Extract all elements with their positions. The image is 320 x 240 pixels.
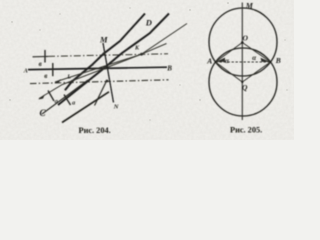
svg-text:M: M [99, 34, 108, 44]
svg-text:Рис. 205.: Рис. 205. [230, 126, 262, 135]
wire: thick slanted line S2 (through P crossing) [58, 14, 169, 106]
wire: vertical tick T2 crossing H2 [52, 63, 54, 76]
wire: horizontal dash-dot line H3 (bottom) [30, 80, 169, 84]
svg-text:A: A [206, 56, 212, 65]
wire: line M-N (near vertical) [103, 43, 114, 103]
svg-text:N: N [113, 104, 119, 111]
node A dot [215, 61, 217, 63]
wire: segment A-O [216, 43, 243, 63]
svg-text:C: C [40, 108, 47, 118]
svg-text:α: α [252, 54, 256, 62]
svg-text:B: B [275, 56, 281, 65]
node H1-MN-S1 crossing dot [103, 52, 106, 55]
node S1-H2 crossing dot [91, 64, 93, 66]
wire: hatch tick h2 [64, 95, 71, 106]
wire: segment A-Q [216, 62, 243, 82]
wire: dashed diagonal A-B [216, 61, 271, 63]
svg-text:Q: Q [242, 83, 248, 92]
wire: segment O-B [242, 43, 270, 63]
circle top (center O) [209, 8, 277, 76]
arrowhead at left end of S4 [55, 79, 62, 83]
svg-text:B: B [166, 65, 172, 73]
wire: vertical tick T1 crossing H1 [44, 50, 46, 63]
svg-text:M: M [245, 2, 254, 11]
wire: horizontal solid line A-B (H2) [28, 67, 167, 69]
svg-text:O: O [243, 34, 249, 43]
wire: steep line SX below H3 [95, 80, 108, 106]
angle wedge at B [261, 58, 271, 62]
angle wedge at A [216, 58, 226, 62]
wire: thin line from C up-right (SC) [42, 80, 88, 114]
wire: thick slanted line S1 (through L, upper-left of pencil) [65, 14, 145, 91]
wire: thin slanted line S3 through K to far right [39, 24, 187, 99]
node P (central crossing) dot [103, 66, 107, 70]
svg-text:в: в [39, 60, 42, 68]
wire: thin shallow slanted line S4 [55, 44, 167, 83]
wire: segment B-Q [242, 62, 270, 82]
wire: hatch tick h1 [48, 91, 54, 102]
wire: horizontal dash-dot line H1 (top) [33, 55, 49, 57]
circle bottom (center Q) [209, 48, 277, 116]
arrowhead at lower end of S3 [38, 94, 45, 99]
node K crossing dot [140, 53, 143, 56]
wire: vertical line M through centers [241, 3, 243, 121]
svg-text:L: L [66, 74, 71, 80]
scan noise specks [9, 2, 287, 120]
node L dot [71, 80, 74, 83]
node B dot [270, 61, 272, 63]
wire: thick short slanted line S2b bottom [62, 92, 109, 123]
svg-text:A: A [23, 68, 28, 74]
svg-text:Рис. 204.: Рис. 204. [79, 126, 111, 135]
svg-text:α: α [225, 57, 229, 65]
node Q dot [241, 81, 243, 83]
svg-text:D: D [145, 18, 152, 28]
node O dot [241, 41, 244, 44]
node H3-MN crossing dot [106, 80, 109, 83]
svg-text:в: в [44, 72, 47, 80]
